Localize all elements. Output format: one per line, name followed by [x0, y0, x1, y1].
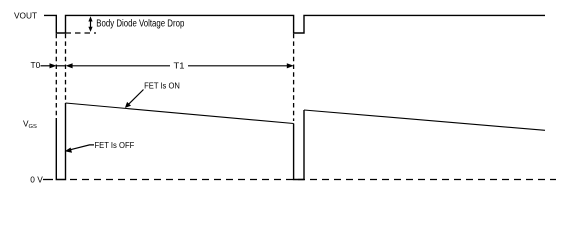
- svg-text:FET Is ON: FET Is ON: [144, 80, 180, 90]
- FET is ON arrow: [125, 90, 144, 108]
- T0 arrow: [41, 63, 57, 68]
- svg-text:VOUT: VOUT: [14, 10, 37, 20]
- svg-text:FET Is OFF: FET Is OFF: [95, 140, 135, 150]
- wire: VOUT waveform: [44, 15, 545, 33]
- dashed guide line at T0 (x=56): [55, 34, 57, 117]
- wire: segment between guides at arrow level: [56, 65, 65, 67]
- wire: 0V solid tick after label: [43, 179, 53, 181]
- wire: VGS decay ramp 2: [304, 110, 545, 130]
- wire: body diode level dashed extension: [66, 32, 97, 34]
- svg-text:0 V: 0 V: [30, 174, 43, 184]
- svg-text:VGS: VGS: [23, 118, 37, 130]
- wire: 0V dashed baseline: [70, 179, 556, 181]
- dashed guide line at T1 start (x=65): [65, 34, 67, 100]
- wire: VGS decay ramp 1: [66, 103, 294, 124]
- svg-text:T0: T0: [31, 60, 41, 70]
- svg-text:T1: T1: [174, 60, 185, 70]
- svg-text:Body Diode Voltage Drop: Body Diode Voltage Drop: [96, 19, 184, 30]
- wire: VGS waveform: [56, 103, 304, 180]
- FET is OFF arrow: [65, 145, 94, 153]
- dashed guide line at T1 end (x=294): [293, 34, 295, 121]
- body diode voltage drop dimension arrow: [88, 16, 92, 32]
- T1 dimension arrow: [66, 63, 294, 68]
